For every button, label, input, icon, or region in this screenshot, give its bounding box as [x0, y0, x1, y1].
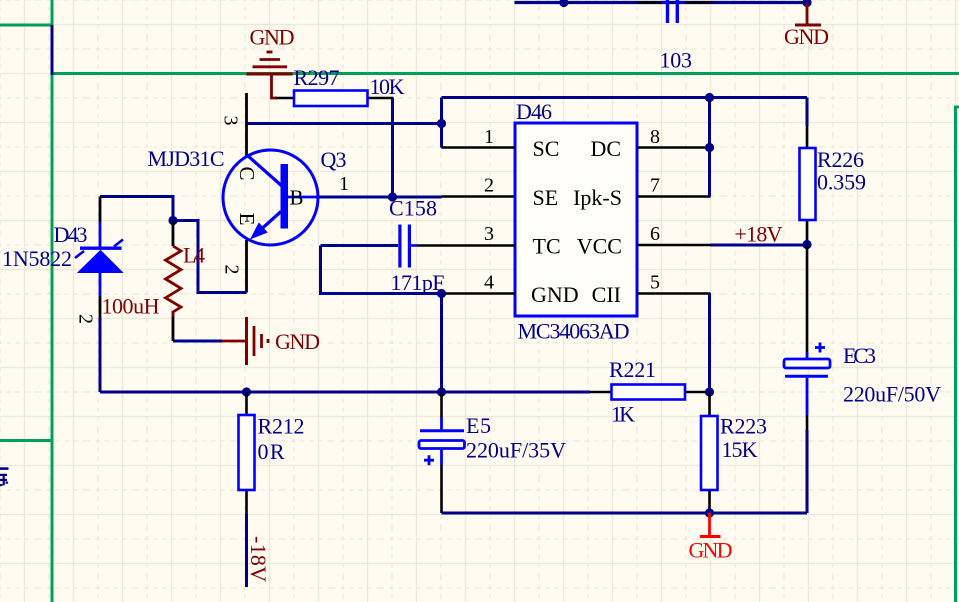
svg-text:E5: E5	[466, 413, 491, 438]
capacitor EC3 top wire	[806, 245, 809, 353]
resistor R226 body	[800, 148, 816, 220]
junction pin8	[705, 143, 714, 152]
diode D43 triangle	[78, 251, 123, 273]
svg-text:5: 5	[650, 272, 660, 294]
resistor R297 pins	[276, 97, 394, 100]
svg-text:TC: TC	[533, 234, 561, 259]
capacitor C158 lower wire	[321, 246, 442, 294]
sheet symbol border (green) right block	[956, 107, 959, 602]
svg-text:2: 2	[484, 175, 494, 197]
svg-text:GND: GND	[784, 24, 829, 49]
junction collector/pin1	[437, 119, 446, 128]
svg-text:7: 7	[650, 175, 660, 197]
svg-text:GND: GND	[275, 329, 320, 354]
svg-text:L4: L4	[183, 243, 205, 268]
wire R226 drop	[806, 98, 809, 127]
wire bottom bus y=513	[442, 512, 808, 515]
svg-text:+18V: +18V	[735, 222, 783, 247]
wire pin4 to bus	[440, 294, 443, 393]
sheet symbol border (green) main block top edge	[51, 72, 959, 75]
junction +18V	[802, 240, 811, 249]
resistor R221 body	[612, 385, 686, 400]
svg-text:103: 103	[660, 48, 693, 73]
wire pin6 +18V net	[711, 244, 808, 247]
wire vertical overlapping left green border	[51, 25, 54, 75]
capacitor 103 plates	[661, 0, 684, 23]
svg-text:1N5822: 1N5822	[2, 246, 72, 271]
svg-text:E: E	[235, 213, 259, 226]
capacitor EC3 bottom pin	[806, 378, 809, 415]
svg-text:220uF/50V: 220uF/50V	[843, 382, 941, 407]
resistor R226 pins	[806, 126, 809, 245]
diode D43 bar wings	[75, 240, 123, 259]
wire top horizontal net	[515, 1, 808, 4]
transistor Q3 collector pin	[245, 93, 248, 156]
svg-text:Q3: Q3	[321, 147, 347, 172]
svg-text:1: 1	[339, 173, 349, 195]
capacitor E5 top plate	[420, 429, 464, 432]
wire emitter to L4 node	[173, 221, 247, 293]
svg-text:2: 2	[221, 265, 243, 275]
svg-text:1K: 1K	[611, 402, 635, 427]
IC D46 pin 6	[637, 244, 711, 247]
svg-text:100uH: 100uH	[102, 294, 160, 319]
capacitor 103 pins (black)	[638, 1, 712, 4]
junction bus/R212	[242, 387, 251, 396]
junction at GND drop on top wire	[802, 0, 811, 7]
wire to -18V	[245, 514, 248, 588]
wire right vertical x=709.5 pins 8-7	[708, 98, 711, 197]
wire bus y=392	[100, 391, 590, 394]
IC D46 pin 1	[442, 146, 516, 149]
svg-text:DC: DC	[590, 136, 621, 161]
diode D43 bottom pin	[99, 273, 102, 297]
resistor R212 pins	[245, 392, 248, 514]
capacitor EC3 top plate bar	[784, 359, 830, 368]
svg-text:SE: SE	[533, 185, 559, 210]
svg-text:3: 3	[220, 116, 242, 126]
transistor Q3 collector diagonal	[248, 156, 284, 188]
IC D46 box	[515, 123, 637, 316]
resistor R212 body	[239, 415, 255, 490]
power ground GND (maroon earth, rotated, near L4)	[222, 317, 268, 365]
junction bus/E5	[437, 387, 446, 396]
svg-text:R223: R223	[720, 414, 767, 439]
capacitor C158 right stub	[411, 244, 417, 247]
svg-text:D43: D43	[54, 222, 88, 247]
svg-text:C: C	[235, 166, 259, 180]
svg-text:0.359: 0.359	[817, 170, 866, 195]
svg-text:3: 3	[484, 223, 494, 245]
capacitor C158 left wire	[321, 244, 399, 247]
junction base/R297	[388, 192, 397, 201]
junction R221/R223/pin5	[705, 387, 714, 396]
svg-text:C158: C158	[389, 196, 437, 221]
svg-text:0R: 0R	[258, 439, 285, 464]
wire EC3 to bottom bus	[806, 430, 809, 513]
svg-text:2: 2	[75, 314, 97, 324]
transistor Q3 base bar	[281, 164, 289, 229]
IC D46 pin 5	[637, 292, 711, 295]
junction top net x=709.5	[705, 93, 714, 102]
svg-text:VCC: VCC	[577, 234, 622, 259]
capacitor E5 bottom pin	[440, 449, 443, 466]
svg-text:-18V: -18V	[246, 536, 271, 582]
diode D43 top pin (black+blue)	[99, 197, 102, 222]
junction C158/pin4	[437, 289, 446, 298]
capacitor E5 top pin	[440, 392, 443, 418]
wire R297 to base (vertical)	[391, 98, 394, 197]
transistor Q3 base pin stub	[288, 196, 320, 199]
inductor L4 top pin	[172, 221, 175, 247]
wire vertical x=441.5 to pin1	[440, 98, 443, 148]
svg-text:10K: 10K	[370, 74, 405, 99]
sheet symbol border (green) bottom-left block	[0, 439, 54, 442]
IC D46 pin 8	[637, 146, 711, 149]
wire D43 top to L4 node	[100, 197, 173, 221]
svg-text:171pF: 171pF	[391, 270, 445, 295]
IC D46 pin 3	[417, 244, 515, 247]
capacitor C158 plates	[400, 225, 410, 268]
transistor Q3 emitter diagonal	[254, 212, 281, 236]
resistor R221 pins	[590, 391, 710, 394]
svg-text:220uF/35V: 220uF/35V	[466, 438, 566, 463]
svg-text:R212: R212	[258, 414, 305, 439]
inductor L4 bottom pin	[172, 317, 175, 342]
power ground GND (maroon earth, above R297)	[247, 52, 293, 98]
transistor Q3 circle	[223, 150, 318, 245]
wire pin5 down	[708, 294, 711, 393]
svg-text:GND: GND	[689, 538, 733, 563]
svg-text:Ipk-S: Ipk-S	[573, 185, 622, 210]
svg-text:R297: R297	[294, 65, 340, 90]
wire base net	[320, 196, 442, 199]
pin 2 SE black segment	[442, 195, 516, 198]
wire L4 bottom to ground	[173, 340, 222, 343]
power ground GND (maroon, top right, bar style)	[795, 3, 821, 26]
power ground GND (red, bottom)	[700, 513, 721, 537]
capacitor EC3 plus sign	[815, 343, 825, 353]
capacitor EC3 bottom plate	[785, 375, 828, 378]
sheet symbol border (green) top-left block	[0, 0, 54, 602]
transistor Q3 emitter arrow	[251, 223, 267, 238]
svg-text:CII: CII	[592, 282, 621, 307]
capacitor E5 bottom plate bar	[419, 441, 465, 449]
diode D43 schottky bar	[80, 246, 122, 249]
svg-text:MJD31C: MJD31C	[148, 146, 225, 171]
resistor R223 pins	[708, 392, 711, 513]
IC D46 pin 7	[637, 195, 711, 198]
transistor Q3 emitter pin	[245, 240, 248, 293]
resistor R297 body	[294, 91, 368, 107]
svg-text:GND: GND	[250, 25, 295, 50]
junction L4 top node	[168, 216, 177, 225]
svg-text:D46: D46	[516, 99, 552, 124]
svg-text:EC3: EC3	[843, 343, 876, 368]
svg-text:R226: R226	[817, 147, 864, 172]
svg-text:6: 6	[650, 223, 660, 245]
svg-text:GND: GND	[531, 282, 579, 307]
svg-text:SC: SC	[533, 136, 560, 161]
resistor R223 body	[701, 416, 718, 490]
IC D46 pin 4	[442, 292, 516, 295]
wire D43 to bus	[99, 318, 102, 392]
svg-text:15K: 15K	[722, 437, 758, 462]
svg-text:8: 8	[650, 126, 660, 148]
clipped Chinese character at left edge	[0, 467, 9, 486]
junction on top wire	[559, 0, 568, 7]
wire top net y=97.5	[442, 96, 808, 99]
junction bottom bus / R223	[705, 508, 714, 517]
inductor L4 zigzag (maroon)	[166, 246, 182, 317]
svg-text:R221: R221	[609, 357, 656, 382]
wire collector net y=123.5	[247, 122, 442, 125]
svg-text:B: B	[290, 186, 304, 210]
capacitor E5 plus sign	[424, 455, 434, 465]
svg-text:1: 1	[484, 126, 494, 148]
svg-text:4: 4	[484, 272, 494, 294]
svg-text:MC34063AD: MC34063AD	[518, 319, 630, 344]
